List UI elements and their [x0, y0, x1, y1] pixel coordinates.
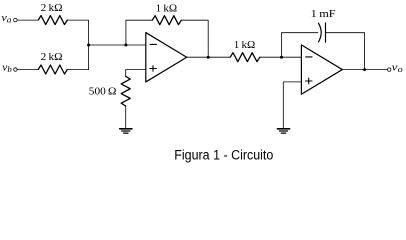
svg-text:vb: vb: [2, 62, 12, 75]
svg-text:1 mF: 1 mF: [311, 8, 336, 20]
svg-text:vo: vo: [392, 62, 403, 75]
svg-text:Figura 1 - Circuito: Figura 1 - Circuito: [174, 147, 273, 163]
svg-text:500 Ω: 500 Ω: [89, 86, 117, 98]
svg-text:1 kΩ: 1 kΩ: [156, 3, 178, 15]
svg-text:2 kΩ: 2 kΩ: [41, 51, 63, 63]
svg-text:2 kΩ: 2 kΩ: [41, 2, 63, 14]
svg-text:1 kΩ: 1 kΩ: [234, 39, 256, 51]
svg-text:va: va: [1, 12, 11, 25]
